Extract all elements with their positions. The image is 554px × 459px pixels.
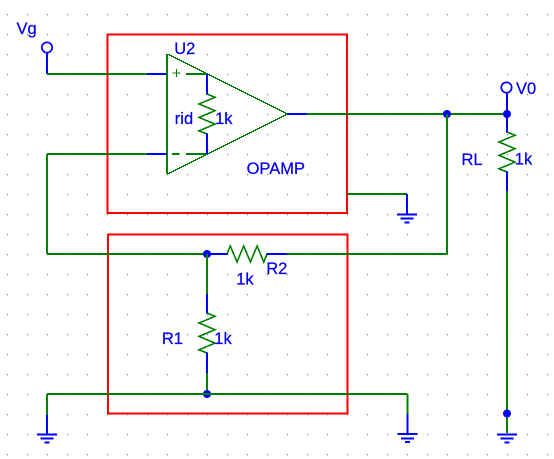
wire Vg to op-amp + input bbox=[47, 73, 147, 75]
junction node bottom rail bbox=[203, 390, 211, 398]
svg-text:rid: rid bbox=[175, 110, 193, 128]
hierarchical block box 1 (op-amp block) bbox=[108, 35, 348, 214]
ground A bars bbox=[397, 214, 417, 222]
resistor RL zigzag body bbox=[499, 132, 515, 172]
svg-text:1k: 1k bbox=[214, 330, 232, 348]
svg-text:1k: 1k bbox=[515, 151, 533, 169]
wire op-amp block to ground A bbox=[347, 193, 407, 195]
resistor R2 zigzag body bbox=[227, 246, 267, 262]
wire bottom rail down left bbox=[46, 394, 48, 415]
op-amp output pin bbox=[287, 113, 307, 115]
resistor rid pin top bbox=[206, 74, 208, 95]
resistor R1 pin bottom bbox=[206, 353, 208, 374]
wire output to V0 column bbox=[307, 113, 508, 115]
wire feedback column down bbox=[46, 154, 48, 254]
junction node at V0 bbox=[503, 110, 511, 118]
hierarchical block box 2 (feedback block) bbox=[108, 234, 348, 413]
wire feedback vertical to output node bbox=[446, 114, 448, 254]
op-amp + input pin bbox=[147, 73, 167, 75]
resistor R1 pin top bbox=[206, 294, 208, 314]
wire bottom rail down middle bbox=[407, 394, 409, 414]
resistor R2 pin right bbox=[267, 253, 288, 255]
ground C bars bbox=[398, 434, 418, 442]
svg-text:R1: R1 bbox=[162, 330, 183, 348]
port terminal Vg bbox=[42, 42, 52, 74]
wire RL down to ground bbox=[506, 191, 508, 433]
wire - input to feedback column bbox=[47, 153, 147, 155]
ground B bars bbox=[37, 434, 57, 442]
ground B pin left bbox=[46, 415, 48, 434]
resistor R2 pin left bbox=[207, 253, 228, 255]
svg-text:R2: R2 bbox=[266, 260, 287, 278]
svg-text:1k: 1k bbox=[215, 110, 233, 128]
svg-text:V0: V0 bbox=[516, 80, 536, 98]
resistor RL pin top bbox=[506, 114, 508, 133]
internal wire - to rid bbox=[186, 153, 207, 155]
resistor RL pin bottom bbox=[506, 172, 508, 192]
op-amp U2 triangle bbox=[167, 54, 288, 174]
svg-text:Vg: Vg bbox=[17, 20, 37, 38]
svg-text:OPAMP: OPAMP bbox=[247, 160, 305, 178]
wire feedback to R1 R2 node bbox=[47, 253, 207, 255]
junction node at feedback tap bbox=[443, 110, 451, 118]
ground A pin bbox=[406, 194, 408, 214]
port terminal V0 bbox=[501, 82, 511, 114]
svg-text:1k: 1k bbox=[236, 271, 254, 289]
ground right under RL bbox=[497, 434, 517, 442]
resistor R1 zigzag body bbox=[199, 313, 215, 353]
svg-text:RL: RL bbox=[462, 151, 483, 169]
junction node above right ground bbox=[503, 410, 511, 418]
wire bottom rail bbox=[47, 393, 408, 395]
op-amp - input pin bbox=[147, 153, 167, 155]
internal wire + to rid bbox=[186, 73, 207, 75]
wire R1 to bottom rail bbox=[206, 373, 208, 394]
junction node R1 R2 bbox=[203, 250, 211, 258]
svg-text:U2: U2 bbox=[174, 40, 195, 58]
wire node down to R1 bbox=[206, 254, 208, 294]
ground C pin bbox=[407, 414, 409, 434]
op-amp minus mark bbox=[172, 153, 180, 155]
wire R2 to output column bbox=[287, 253, 447, 255]
resistor rid zigzag body bbox=[199, 94, 215, 134]
op-amp plus mark bbox=[173, 69, 181, 77]
resistor rid pin bottom bbox=[206, 134, 208, 155]
